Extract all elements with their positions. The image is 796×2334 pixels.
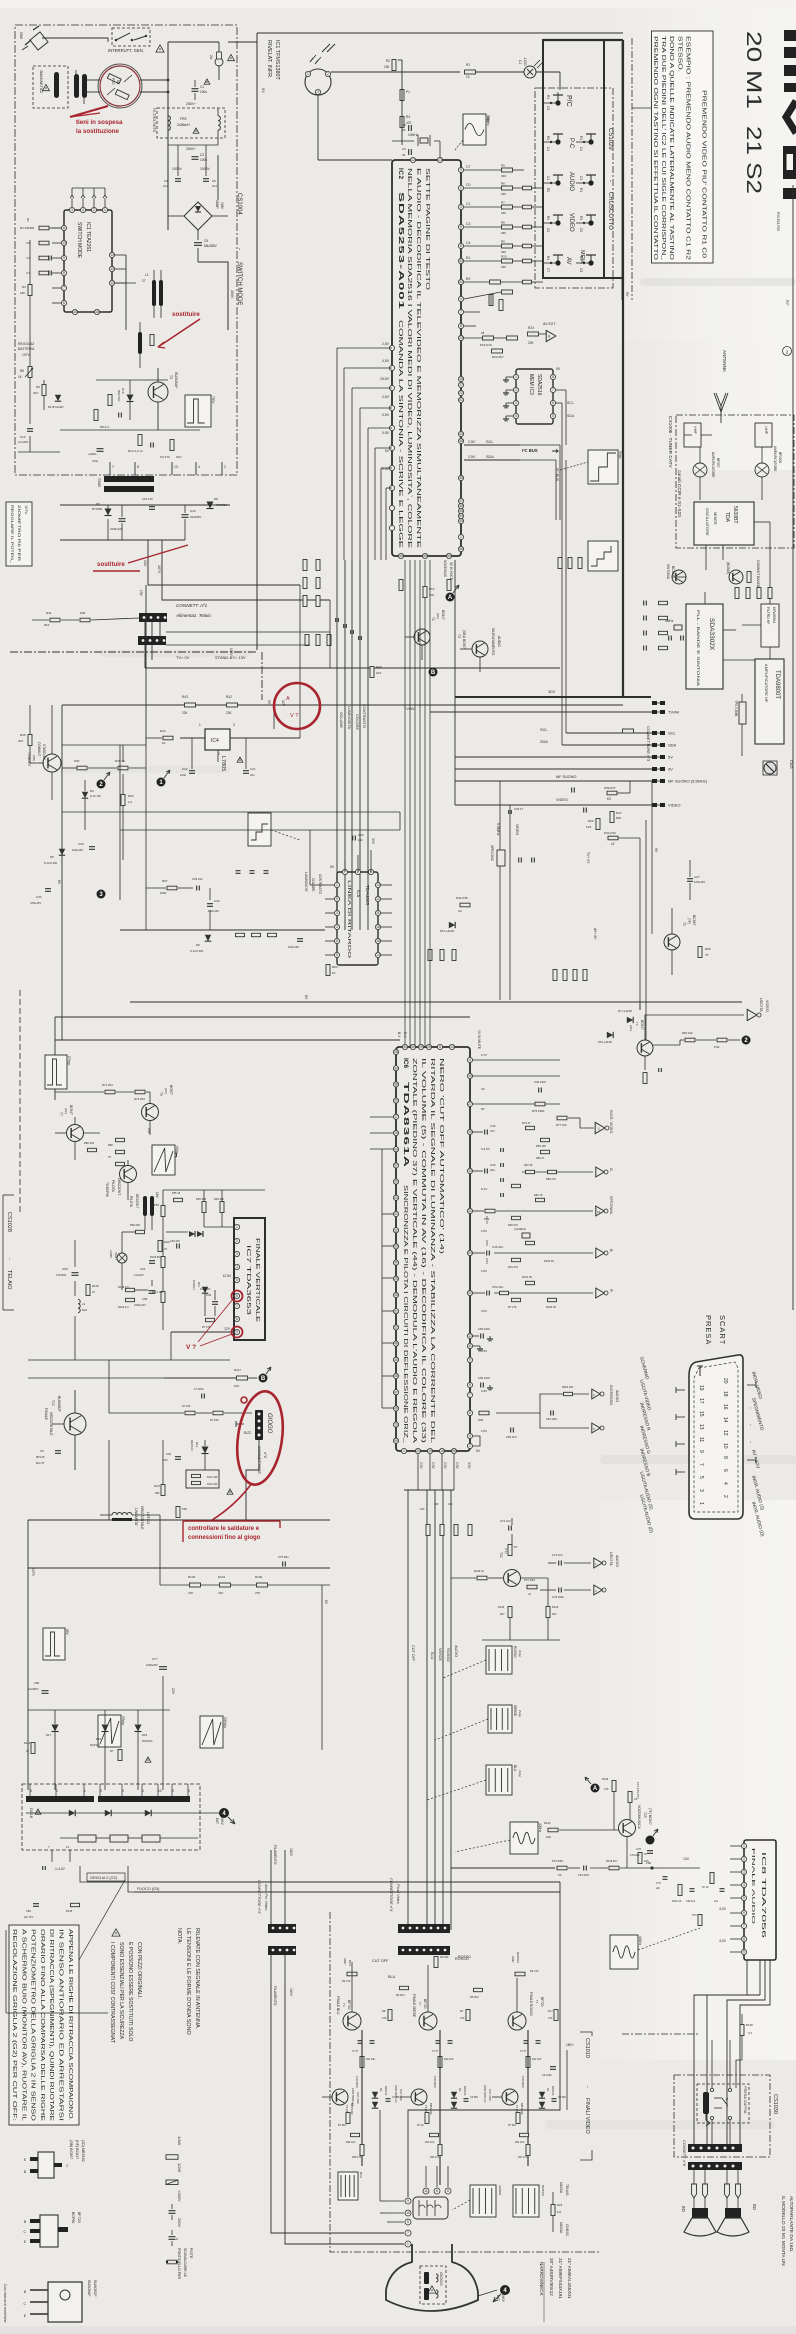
FINALE VERTICALE IC7 TDA3653 body	[234, 1218, 265, 1340]
svg-text:25: 25	[394, 1277, 398, 1281]
svg-text:D16: D16	[96, 1737, 102, 1741]
vertical x382 IC6 left	[381, 1149, 383, 1408]
waveform box 85V	[43, 1628, 65, 1660]
svg-text:BU508AF: BU508AF	[87, 2280, 91, 2297]
connector n4 black bar A	[398, 1924, 450, 1933]
svg-text:SWITCH MODE: SWITCH MODE	[236, 262, 242, 305]
R141 10K resistor	[548, 1828, 558, 1832]
bus 8V line y1002	[130, 1001, 742, 1003]
svg-text:P73: P73	[692, 1913, 697, 1917]
svg-text:R24: R24	[528, 326, 534, 330]
svg-text:RIVELAT. INFR.: RIVELAT. INFR.	[266, 40, 272, 79]
waveform box VERDE crt	[470, 2185, 496, 2217]
ground giogo	[236, 1423, 244, 1425]
svg-text:400Hz: 400Hz	[638, 1936, 642, 1946]
svg-text:P26: P26	[80, 611, 86, 615]
svg-text:C29 47: C29 47	[514, 807, 523, 811]
svg-text:E AUDIO - DECODIFICA IL TELE: E AUDIO - DECODIFICA IL TELEVIDEO E MEMO…	[415, 168, 421, 549]
svg-text:GRIGLIA 2 (G2): GRIGLIA 2 (G2)	[90, 1876, 118, 1880]
waveform box ROSSO crt	[513, 2185, 539, 2217]
svg-text:R14 2,2 1n: R14 2,2 1n	[128, 449, 143, 453]
svg-text:R26 470: R26 470	[352, 2156, 362, 2159]
svg-text:SDA: SDA	[540, 740, 548, 744]
svg-text:100u16V: 100u16V	[72, 848, 83, 852]
svg-text:8: 8	[552, 375, 554, 379]
resistor R24 22K	[528, 332, 539, 336]
svg-text:24: 24	[468, 1251, 472, 1255]
svg-text:200Vpp: 200Vpp	[223, 1717, 227, 1728]
TPS 5,5MB component	[739, 702, 746, 724]
svg-text:CON PEZZI ORIGINALI.: CON PEZZI ORIGINALI.	[136, 1942, 142, 1999]
svg-text:2,5V: 2,5V	[468, 455, 476, 459]
svg-text:R131: R131	[218, 1575, 226, 1579]
potentiometer R6	[28, 367, 32, 378]
svg-text:10: 10	[406, 2211, 410, 2215]
R133 2K2 resistor	[546, 1607, 550, 1618]
AV EXT triangle	[546, 330, 556, 341]
svg-text:BF720: BF720	[540, 1997, 544, 2007]
svg-text:6: 6	[469, 1411, 471, 1415]
test point 2	[97, 780, 106, 789]
lamp VERT symbol	[117, 1253, 127, 1263]
svg-text:4: 4	[515, 414, 517, 418]
svg-text:R1: R1	[466, 63, 470, 67]
legend resistor 1/2W	[166, 2180, 178, 2185]
svg-text:P42: P42	[714, 1045, 720, 1049]
ceramic filter caps	[518, 858, 520, 863]
svg-text:P16-P13: P16-P13	[480, 343, 492, 347]
C42 47n cap	[484, 1130, 486, 1135]
svg-text:C4: C4	[164, 179, 168, 183]
svg-text:47: 47	[459, 499, 463, 503]
R31 resistors bottom IC2	[399, 580, 403, 591]
svg-text:SDA2516: SDA2516	[536, 374, 542, 396]
R73 2K0 resistor	[135, 1090, 145, 1094]
svg-text:4: 4	[236, 1265, 238, 1269]
stand-by wire to right	[329, 600, 331, 668]
svg-text:C54: C54	[140, 1267, 146, 1271]
IC5 top pins	[342, 869, 347, 874]
package BCP56/BF720	[24, 2215, 68, 2247]
svg-text:2K2: 2K2	[552, 1612, 557, 1616]
svg-text:22n: 22n	[656, 1887, 661, 1890]
svg-text:R117: R117	[234, 1368, 241, 1372]
svg-text:R8: R8	[501, 221, 505, 225]
svg-text:2K2: 2K2	[376, 671, 382, 675]
svg-text:C25: C25	[78, 842, 84, 846]
svg-text:08M: 08M	[220, 202, 224, 209]
IC6 right pins	[467, 1057, 472, 1448]
svg-text:24KV: 24KV	[220, 1817, 224, 1826]
R103 3,3 resistors	[126, 1288, 135, 1291]
svg-text:100: 100	[420, 1507, 425, 1511]
horizontal y2013 bottom left	[6, 2012, 108, 2014]
svg-text:47K: 47K	[218, 1591, 223, 1595]
svg-text:R104 39: R104 39	[546, 1305, 556, 1309]
red giogo ellipse	[232, 1388, 289, 1487]
svg-text:19: 19	[428, 1449, 432, 1453]
svg-text:D8: D8	[214, 497, 218, 501]
giogo feed line	[164, 1377, 236, 1379]
svg-text:3: 3	[233, 723, 235, 727]
heavy bottom bus keypad	[543, 277, 623, 279]
svg-text:7: 7	[460, 310, 462, 314]
svg-text:13: 13	[376, 883, 380, 887]
svg-text:1: 1	[515, 375, 517, 379]
svg-text:30V: 30V	[371, 838, 375, 845]
svg-text:R91 270: R91 270	[508, 1265, 518, 1269]
IC1 left pins	[52, 225, 67, 305]
svg-text:R71 2K2: R71 2K2	[102, 1083, 113, 1087]
wires voce musica	[451, 1829, 547, 1831]
svg-text:30V: 30V	[281, 700, 285, 707]
connector n6 black bar B	[688, 2162, 742, 2170]
wire yoke horizontal y1360	[230, 1359, 382, 1361]
T5 transistor BC847 right	[664, 934, 680, 950]
svg-text:ALTOPARLANTE DA 16Ω.: ALTOPARLANTE DA 16Ω.	[788, 2196, 794, 2252]
svg-text:GIOGO: GIOGO	[266, 1413, 272, 1434]
regolare il potenziometro text box	[6, 502, 32, 566]
wires secondary	[60, 504, 230, 506]
svg-text:2200u16V: 2200u16V	[110, 527, 123, 531]
svg-text:IC2: IC2	[397, 168, 404, 180]
diodes BAV103 columns	[372, 2092, 378, 2098]
svg-text:56: 56	[459, 547, 463, 551]
svg-text:330: 330	[501, 250, 506, 254]
waveform box 400Hz 2	[610, 1935, 638, 1969]
wires right of IC6 to triangles	[473, 1059, 560, 1061]
heavy 30V bus	[455, 696, 651, 698]
svg-text:V ?: V ?	[290, 713, 298, 719]
svg-text:C? 47: C? 47	[432, 2050, 439, 2053]
svg-text:R141: R141	[544, 1821, 551, 1825]
svg-text:+400V~: +400V~	[88, 452, 98, 456]
scart inner dashed outline	[694, 1362, 738, 1512]
wires horiz output	[74, 1240, 76, 1267]
svg-text:2: 2	[469, 1444, 471, 1448]
svg-text:D15: D15	[142, 1733, 148, 1737]
svg-text:C2: C2	[200, 153, 204, 157]
red pointer to text giogo	[212, 1483, 252, 1520]
svg-text:270: 270	[460, 2016, 465, 2020]
svg-text:VERDE: VERDE	[513, 1705, 517, 1716]
svg-text:330: 330	[501, 192, 506, 196]
svg-text:2,5V: 2,5V	[431, 1462, 435, 1469]
svg-text:R5 2K2: R5 2K2	[470, 1995, 479, 1999]
svg-text:R129 1K: R129 1K	[474, 1569, 484, 1573]
svg-text:45: 45	[394, 1358, 398, 1362]
svg-text:R103 8K2: R103 8K2	[150, 1255, 162, 1259]
svg-text:A: A	[593, 1786, 598, 1792]
svg-text:R73 2K0: R73 2K0	[134, 1097, 145, 1101]
svg-text:7: 7	[63, 286, 65, 290]
keypad switch column right	[583, 134, 596, 266]
svg-text:R83 100: R83 100	[536, 1144, 546, 1148]
svg-text:33u250V: 33u250V	[190, 515, 201, 519]
svg-text:32: 32	[394, 1228, 398, 1232]
svg-text:3: 3	[743, 1870, 745, 1874]
svg-text:LUMINOSITA': LUMINOSITA'	[347, 706, 351, 730]
bottom bus line IC6	[404, 1489, 454, 1491]
C54 2,2u16V cap	[149, 1260, 155, 1262]
svg-text:SCL: SCL	[668, 731, 677, 736]
svg-text:ZIOMETRO R6 PER: ZIOMETRO R6 PER	[17, 505, 21, 561]
D5 8,2V zener	[59, 849, 65, 855]
R41 9K2 resistor	[50, 618, 60, 622]
svg-text:5: 5	[698, 1476, 704, 1479]
svg-text:45: 45	[459, 504, 463, 508]
filament wires to socket	[271, 1984, 404, 2233]
svg-text:21" A59EAL155X01: 21" A59EAL155X01	[567, 2258, 572, 2299]
svg-text:COLORE: COLORE	[355, 714, 359, 731]
legend capacitor <250V	[169, 2210, 176, 2212]
svg-text:5V: 5V	[330, 865, 335, 869]
svg-text:4: 4	[722, 1482, 728, 1485]
svg-text:T1: T1	[431, 617, 435, 621]
PTC component (red-circled)	[98, 64, 142, 108]
red note tieni in sospesa	[70, 106, 123, 135]
svg-text:R11 10K: R11 10K	[366, 2058, 376, 2061]
R117 10K resistor	[237, 1376, 248, 1380]
svg-text:2,2u16V: 2,2u16V	[18, 440, 29, 444]
wire IR down	[317, 95, 319, 160]
svg-text:CRUSCOTTO: CRUSCOTTO	[607, 192, 613, 230]
svg-text:R12 10K: R12 10K	[532, 2058, 542, 2061]
waveform box PSU	[185, 395, 211, 427]
misc resistors row above IC6 x560-600	[553, 970, 587, 981]
svg-text:C61 220n: C61 220n	[578, 1873, 590, 1877]
main board top frame	[257, 32, 623, 34]
dashed pointer crt waveforms	[452, 2200, 470, 2210]
svg-text:MBTA92: MBTA92	[520, 2103, 524, 2115]
svg-text:12: 12	[110, 281, 114, 285]
svg-text:17: 17	[459, 383, 463, 387]
A test point audio	[591, 1784, 600, 1793]
resistor R23 4K7	[492, 349, 503, 353]
svg-text:2n2: 2n2	[212, 184, 217, 188]
svg-text:68u385V: 68u385V	[204, 244, 218, 248]
caps column left of scart C63 C65 C66	[501, 1148, 504, 1197]
svg-text:P27: P27	[785, 300, 789, 306]
svg-text:R23 4K7: R23 4K7	[492, 355, 504, 359]
svg-text:B-Y: B-Y	[397, 1032, 401, 1038]
P65 resistor	[176, 1507, 180, 1518]
svg-text:250V~: 250V~	[186, 147, 197, 151]
svg-text:B: B	[431, 670, 436, 676]
svg-text:3,5V: 3,5V	[481, 1309, 487, 1313]
svg-text:P19: P19	[429, 587, 435, 591]
svg-text:330: 330	[501, 174, 506, 178]
CRT gun structure	[413, 2197, 448, 2219]
x330 vertical mid	[329, 1520, 331, 1585]
svg-text:R86 1K2: R86 1K2	[84, 1141, 95, 1145]
svg-text:5V: 5V	[261, 88, 266, 93]
svg-text:13: 13	[468, 1169, 472, 1173]
warning DS18	[35, 1809, 41, 1814]
svg-text:R27 470: R27 470	[518, 2156, 528, 2159]
svg-text:P72-P69: P72-P69	[552, 1859, 563, 1863]
svg-text:C50: C50	[62, 1267, 68, 1271]
svg-text:R101 39: R101 39	[522, 1275, 532, 1279]
jungle IC6 TDA8361A body	[396, 1047, 470, 1451]
presa cuffia dashed box	[697, 2084, 749, 2123]
horizontal lines lower left	[28, 1359, 230, 1361]
svg-text:38: 38	[394, 1083, 398, 1087]
transistor T9 BC807	[142, 1104, 159, 1121]
waveform box verde	[488, 1705, 512, 1733]
svg-text:MEM IC3: MEM IC3	[528, 374, 534, 395]
100u16V cap right of IC5	[297, 938, 303, 940]
svg-text:20" A48JRV90X12: 20" A48JRV90X12	[549, 2258, 554, 2296]
svg-text:R10 10K: R10 10K	[444, 2058, 454, 2061]
IC5 bus links	[310, 884, 325, 886]
svg-text:R1 56K: R1 56K	[20, 226, 30, 230]
svg-text:4K7: 4K7	[33, 391, 39, 395]
keypad module dash-dot border CS1029	[535, 88, 613, 288]
svg-text:110/160V: 110/160V	[355, 2076, 359, 2088]
svg-text:30: 30	[411, 1045, 415, 1049]
svg-text:3,3: 3,3	[748, 2031, 752, 2035]
svg-text:PRESA CUFFIA: PRESA CUFFIA	[743, 2086, 747, 2114]
F68 junction	[650, 1866, 653, 1869]
svg-text:R2: R2	[546, 216, 550, 220]
svg-text:2,5V: 2,5V	[455, 1462, 459, 1469]
svg-text:3,5V: 3,5V	[467, 1462, 471, 1469]
waveform box blu	[486, 1765, 512, 1795]
svg-text:27K: 27K	[255, 1591, 260, 1595]
svg-text:EAT: EAT	[215, 1818, 219, 1824]
svg-text:1: 1	[743, 1844, 745, 1848]
svg-text:connessioni fino al giogo: connessioni fino al giogo	[188, 1535, 261, 1541]
svg-text:R? 150: R? 150	[182, 1404, 191, 1408]
R139 1K5 resistor	[638, 1853, 642, 1864]
svg-text:48: 48	[394, 1342, 398, 1346]
svg-text:R57: R57	[162, 879, 168, 883]
PILOTA transformer DR220NT	[143, 1196, 147, 1216]
svg-text:CONNETTORE n°4: CONNETTORE n°4	[389, 1878, 393, 1911]
R100 27K resistor	[257, 1583, 268, 1587]
svg-text:8V: 8V	[304, 995, 308, 1000]
C64 470n cap	[175, 1456, 181, 1458]
R146 47K resistor	[612, 1781, 616, 1792]
svg-text:ROSSO: ROSSO	[513, 1646, 517, 1658]
svg-text:C74 2n2: C74 2n2	[552, 1553, 563, 1557]
svg-text:BCP56: BCP56	[71, 2212, 75, 2223]
bridge rectifier 2KBP08M	[184, 200, 224, 230]
R142 1K CR2 2n2 pair	[710, 1873, 714, 1884]
svg-text:APPENA LE RIGHE DI RITRACC: APPENA LE RIGHE DI RITRACCIA SCOMPAIONO.	[67, 1929, 73, 2121]
RH6 27 resistor	[158, 1241, 162, 1252]
svg-text:TSM5: TSM5	[97, 478, 101, 487]
svg-text:8: 8	[63, 271, 65, 275]
svg-text:18: 18	[722, 1391, 728, 1397]
main left vertical x120	[119, 745, 121, 900]
svg-text:11: 11	[376, 911, 380, 915]
svg-text:51: 51	[459, 398, 463, 402]
svg-text:R145: R145	[66, 1909, 73, 1913]
svg-text:DONO A QUELLE INDICATE LATERAL: DONO A QUELLE INDICATE LATERALMENTE AL T…	[668, 36, 674, 261]
svg-text:1: 1	[407, 2242, 409, 2246]
CRT warning	[428, 2286, 436, 2293]
svg-text:AV+ 8V: AV+ 8V	[593, 928, 597, 940]
wire x300 drop	[299, 585, 301, 738]
svg-text:VIDEO: VIDEO	[668, 803, 680, 808]
capacitor C3 33	[408, 149, 410, 155]
svg-text:5,5MHz: 5,5MHz	[496, 823, 500, 836]
svg-text:51: 51	[394, 1309, 398, 1313]
svg-text:controllare le saldature e: controllare le saldature e	[188, 1526, 260, 1532]
svg-text:D7 LL4148: D7 LL4148	[618, 1009, 632, 1013]
svg-text:10n 1KV: 10n 1KV	[24, 1916, 34, 1919]
connector n5 black bar B	[268, 1946, 296, 1955]
svg-text:15-5V: 15-5V	[380, 377, 390, 381]
svg-text:54: 54	[394, 1439, 398, 1443]
B test point deflection	[259, 1374, 268, 1383]
svg-text:o: o	[176, 2237, 178, 2241]
componenti contrassegnati block	[112, 1929, 120, 1936]
amplificatore HF TDA9800T box	[755, 659, 784, 744]
IC6 top pins	[402, 1044, 454, 1049]
svg-text:BLU: BLU	[348, 1960, 352, 1966]
svg-text:R140 1K: R140 1K	[672, 1900, 682, 1903]
svg-text:TPS 5,5MB: TPS 5,5MB	[734, 700, 738, 716]
keypad internal wires	[543, 92, 584, 263]
svg-text:10n: 10n	[358, 838, 363, 842]
9V line	[455, 768, 652, 770]
P42 resistor	[717, 1038, 727, 1042]
svg-text:C77: C77	[152, 1657, 158, 1661]
svg-text:TV/AV: TV/AV	[404, 707, 415, 711]
svg-text:D2: D2	[458, 2088, 462, 2092]
svg-text:BLU: BLU	[359, 2172, 363, 2178]
svg-text:VERDE: VERDE	[498, 2185, 502, 2195]
psu secondary diodes D6 BYW96	[105, 509, 112, 516]
svg-text:COMMUT: COMMUT	[37, 742, 41, 756]
svg-text:22K: 22K	[528, 341, 535, 345]
svg-text:4: 4	[82, 208, 84, 212]
svg-text:R143: R143	[24, 1741, 31, 1745]
G triangle	[596, 1167, 604, 1177]
svg-text:1: 1	[199, 723, 201, 727]
svg-text:D3: D3	[90, 789, 94, 793]
svg-text:P23-P21-P25: P23-P21-P25	[776, 212, 780, 231]
C caps 47 470	[352, 2041, 541, 2053]
svg-text:3: 3	[336, 911, 338, 915]
svg-text:29: 29	[419, 1045, 423, 1049]
svg-text:TRA DUE PIEDINI DELL' IC2 LE C: TRA DUE PIEDINI DELL' IC2 LE CUI SIGLE C…	[660, 36, 666, 261]
svg-text:GIOGO: GIOGO	[439, 2272, 444, 2286]
svg-text:BATTERIA: BATTERIA	[18, 347, 35, 351]
wires midleft cluster	[62, 767, 77, 769]
svg-text:IL MODELLO 20 M1 MONTA UN: IL MODELLO 20 M1 MONTA UN	[780, 2196, 786, 2266]
left pin wires bundle	[337, 348, 392, 560]
damper cap XV 9KV25	[55, 1450, 61, 1452]
capacitor C9 68u385V	[194, 242, 202, 244]
svg-text:CS1010: CS1010	[584, 2038, 590, 2058]
wire 30V red circle line	[300, 704, 337, 706]
svg-text:C22: C22	[182, 767, 188, 771]
R71 2K2 resistor	[105, 1090, 115, 1094]
svg-text:R45: R45	[20, 733, 26, 737]
R143 47 resistor	[31, 1743, 35, 1754]
C22 100n	[189, 770, 195, 772]
svg-text:35: 35	[394, 1293, 398, 1297]
svg-text:UHF: UHF	[764, 426, 769, 435]
svg-text:SCAVALCARE LE: SCAVALCARE LE	[183, 2248, 187, 2278]
svg-text:SDA: SDA	[567, 414, 575, 418]
svg-text:FINALE AUDIO: FINALE AUDIO	[750, 1848, 756, 1925]
svg-text:1: 1	[698, 1502, 704, 1505]
